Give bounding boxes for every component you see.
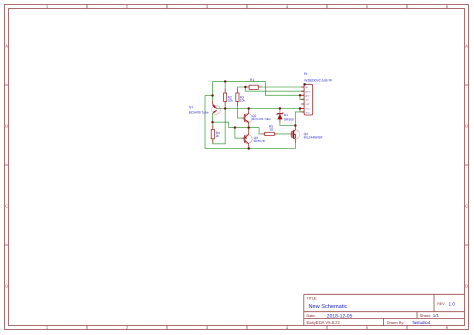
resistor R2: [224, 93, 234, 103]
svg-text:pwm: pwm: [305, 90, 310, 93]
wire Q2 collector stub: [248, 109, 250, 114]
wire Q3 base branch: [235, 128, 245, 139]
wire R2 top pin drop: [224, 81, 226, 93]
wire pin3-pin4 tie: [300, 95, 304, 99]
wire Q3 emitter stub: [248, 128, 250, 135]
svg-text:C: C: [465, 204, 468, 209]
svg-text:10k: 10k: [240, 99, 246, 103]
wire Q1 base drop: [212, 81, 214, 104]
wire Q2 emitter stub: [248, 123, 250, 128]
resistor R1: [249, 78, 258, 90]
transistor Q1: [189, 105, 221, 115]
svg-text:A: A: [5, 44, 8, 49]
svg-text:fastudio4: fastudio4: [413, 320, 431, 325]
svg-text:Q1: Q1: [189, 105, 193, 109]
resistor R5: [265, 124, 275, 135]
svg-text:BC557B: BC557B: [254, 139, 265, 143]
svg-text:TITLE:: TITLE:: [307, 297, 318, 301]
wire Q1 emitter to R4 and bus: [213, 113, 229, 128]
svg-text:SR560: SR560: [284, 117, 294, 121]
svg-text:C: C: [5, 204, 8, 209]
wire drain riser to pin7 line: [295, 112, 304, 126]
svg-text:B: B: [5, 124, 8, 129]
wire MOSFET source riser: [294, 139, 296, 149]
wire gate chain via R5: [259, 128, 290, 134]
svg-text:10: 10: [269, 128, 273, 132]
wire left rail link: [205, 95, 213, 97]
svg-text:P1: P1: [304, 72, 308, 76]
wire R3 top riser: [237, 87, 245, 93]
wire main horizontal node y108.5: [217, 108, 304, 110]
red pin stubs: [213, 87, 296, 147]
diode D1: [277, 112, 294, 122]
wire left rail and bottom rail: [205, 96, 295, 149]
svg-text:BC547B Tube: BC547B Tube: [252, 117, 271, 121]
svg-text:REV:: REV:: [437, 302, 445, 306]
svg-text:1.0: 1.0: [449, 302, 456, 307]
svg-text:EasyEDA V5.8.22: EasyEDA V5.8.22: [307, 320, 341, 325]
svg-text:10k: 10k: [228, 99, 234, 103]
svg-text:IRLZ44NPBF: IRLZ44NPBF: [304, 136, 323, 140]
wire drop to pin2 line: [245, 87, 304, 91]
svg-text:WJ2EDGVC-5.08-7P: WJ2EDGVC-5.08-7P: [304, 78, 332, 82]
wire drain stub down: [294, 126, 296, 130]
svg-text:Sheet:: Sheet:: [420, 314, 431, 318]
svg-text:D: D: [5, 284, 8, 289]
wire R2 bottom to R4 bottom loop: [213, 101, 225, 143]
svg-text:B: B: [465, 124, 468, 129]
svg-text:New Schematic: New Schematic: [309, 303, 348, 310]
transistor Q3: [243, 134, 264, 143]
svg-text:2018-12-05: 2018-12-05: [327, 313, 353, 319]
wire Q3 collector stub: [248, 144, 250, 149]
svg-text:Date:: Date:: [307, 314, 316, 318]
wire D1 bottom link: [280, 119, 296, 126]
MOSFET Q4: [291, 130, 323, 140]
wire R3 bottom to Q2 base: [237, 101, 244, 118]
svg-text:1/1: 1/1: [433, 313, 440, 318]
wire R1 line pin1: [245, 86, 304, 88]
wire top rail node: [205, 81, 304, 148]
wire R4 top pin: [212, 122, 214, 129]
connector P1: [304, 72, 332, 115]
svg-text:A: A: [465, 44, 468, 49]
svg-text:Drawn By:: Drawn By:: [387, 321, 405, 325]
wire corner down to pin3 line: [265, 81, 304, 95]
wire emitter bus y127.6: [229, 127, 259, 129]
svg-text:D: D: [465, 284, 468, 289]
svg-text:2k: 2k: [216, 134, 220, 138]
svg-text:R1: R1: [250, 78, 254, 82]
junction dots: [211, 80, 301, 149]
wire top rail horizontal: [213, 80, 266, 82]
transistor Q2: [243, 113, 271, 122]
resistor R3: [236, 93, 246, 103]
connector P1 pin stubs: [301, 87, 304, 112]
wire pin6-pin7 tie: [299, 109, 301, 112]
svg-text:BC547B Tube: BC547B Tube: [189, 110, 209, 114]
title block: [304, 294, 465, 325]
resistor R4: [211, 130, 220, 139]
